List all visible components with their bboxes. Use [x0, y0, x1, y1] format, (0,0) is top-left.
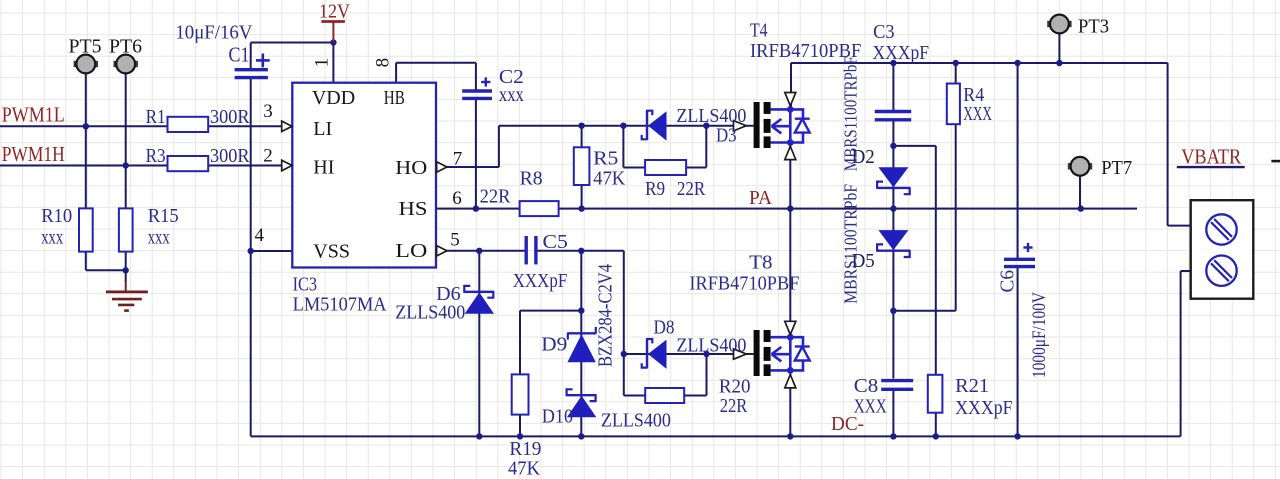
svg-text:xxx: xxx — [499, 84, 524, 106]
svg-text:VSS: VSS — [313, 241, 350, 263]
svg-text:PT7: PT7 — [1101, 157, 1132, 179]
svg-text:7: 7 — [453, 149, 463, 170]
svg-text:xxx: xxx — [41, 227, 63, 249]
svg-text:ZLLS400: ZLLS400 — [676, 105, 746, 127]
svg-text:R8: R8 — [520, 168, 543, 190]
svg-text:3: 3 — [263, 101, 273, 122]
svg-text:PT6: PT6 — [109, 36, 142, 58]
svg-text:XXX: XXX — [963, 103, 992, 125]
svg-text:300R: 300R — [210, 145, 250, 167]
svg-text:PT3: PT3 — [1078, 16, 1109, 38]
svg-text:XXX: XXX — [854, 396, 887, 418]
svg-text:PWM1L: PWM1L — [2, 103, 65, 127]
svg-text:LI: LI — [313, 118, 332, 140]
svg-text:VBATR: VBATR — [1181, 144, 1241, 168]
svg-text:HS: HS — [399, 198, 428, 220]
svg-text:ZLLS400: ZLLS400 — [601, 410, 671, 432]
svg-text:22R: 22R — [677, 178, 706, 200]
svg-text:ZLLS400: ZLLS400 — [395, 301, 465, 323]
svg-text:12V: 12V — [319, 1, 350, 23]
svg-text:LM5107MA: LM5107MA — [293, 294, 388, 316]
svg-text:IRFB4710PBF: IRFB4710PBF — [689, 273, 799, 295]
svg-text:10μF/16V: 10μF/16V — [175, 22, 253, 44]
svg-text:1: 1 — [312, 58, 333, 68]
svg-text:22R: 22R — [720, 395, 748, 417]
svg-text:LO: LO — [395, 240, 427, 262]
svg-text:C5: C5 — [543, 231, 568, 253]
svg-text:47K: 47K — [593, 168, 626, 190]
svg-text:4: 4 — [255, 225, 265, 246]
svg-text:IC3: IC3 — [293, 274, 318, 296]
svg-text:XXXpF: XXXpF — [873, 42, 930, 64]
svg-text:T4: T4 — [750, 20, 768, 42]
svg-text:R21: R21 — [955, 375, 989, 397]
svg-text:ZLLS400: ZLLS400 — [676, 335, 746, 357]
svg-text:R5: R5 — [593, 148, 618, 170]
svg-text:HI: HI — [313, 157, 334, 179]
svg-text:D9: D9 — [541, 334, 567, 356]
svg-text:XXXpF: XXXpF — [955, 397, 1012, 419]
svg-text:C8: C8 — [854, 375, 879, 397]
svg-text:MBRS1100TRPbF: MBRS1100TRPbF — [841, 56, 861, 171]
svg-text:D3: D3 — [716, 125, 737, 147]
svg-text:PT5: PT5 — [69, 36, 102, 58]
svg-text:6: 6 — [452, 188, 462, 209]
svg-text:xxx: xxx — [148, 227, 170, 249]
svg-text:22R: 22R — [480, 185, 511, 207]
svg-text:C1: C1 — [229, 43, 250, 67]
svg-text:47K: 47K — [508, 458, 541, 479]
svg-text:300R: 300R — [210, 106, 250, 128]
svg-text:PA: PA — [749, 187, 773, 209]
svg-text:PWM1H: PWM1H — [2, 142, 65, 166]
svg-text:8: 8 — [373, 58, 394, 68]
svg-text:C3: C3 — [873, 21, 895, 43]
svg-text:R9: R9 — [645, 178, 665, 200]
svg-text:MBRS1100TRPbF: MBRS1100TRPbF — [841, 184, 861, 304]
svg-text:R1: R1 — [146, 106, 166, 128]
svg-text:XXXpF: XXXpF — [513, 270, 568, 292]
svg-text:D10: D10 — [542, 406, 573, 428]
svg-text:VDD: VDD — [312, 87, 355, 109]
svg-text:R15: R15 — [148, 205, 179, 227]
svg-text:HO: HO — [395, 157, 427, 179]
svg-text:C6: C6 — [997, 270, 1019, 293]
svg-text:T8: T8 — [749, 252, 772, 274]
svg-text:5: 5 — [450, 230, 460, 251]
svg-text:D8: D8 — [654, 317, 675, 339]
svg-text:R3: R3 — [146, 145, 166, 167]
svg-text:R10: R10 — [41, 205, 72, 227]
svg-text:HB: HB — [384, 87, 405, 109]
svg-text:1000μF/100V: 1000μF/100V — [1029, 292, 1050, 378]
svg-text:BZX284-C2V4: BZX284-C2V4 — [595, 264, 617, 367]
svg-text:2: 2 — [263, 146, 273, 167]
